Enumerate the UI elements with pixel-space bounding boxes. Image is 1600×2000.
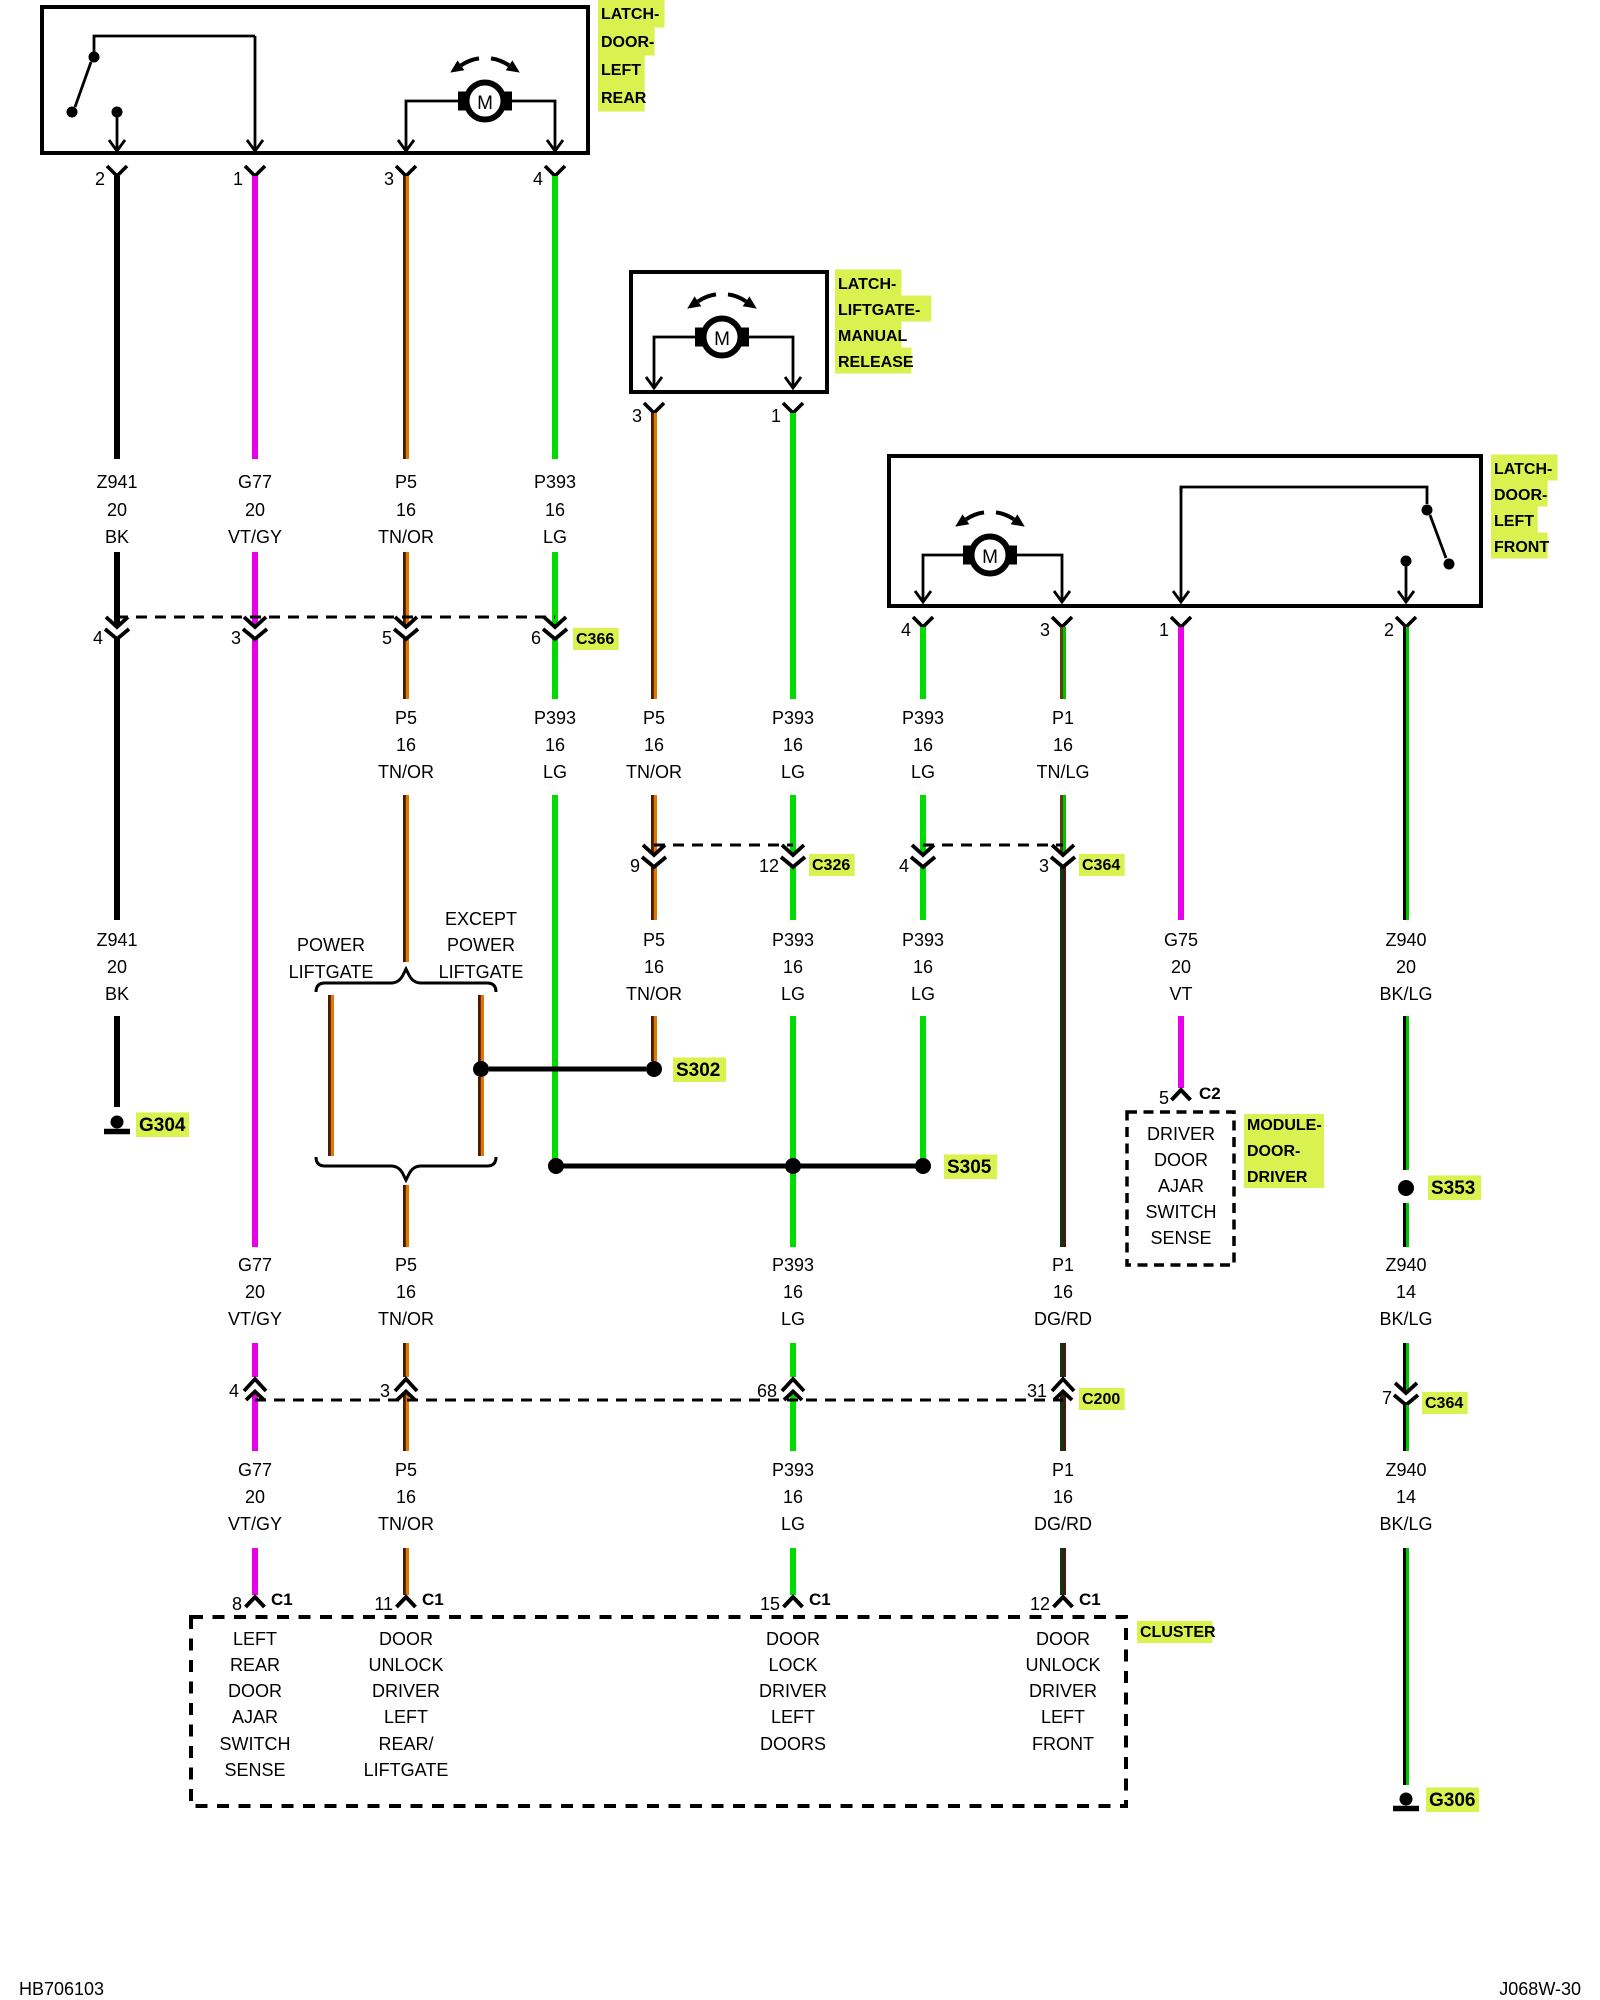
svg-text:LG: LG [543,762,567,782]
switch SW1 (door ajar, left rear) [94,36,255,52]
motor M, left rear door latch [461,58,479,65]
svg-text:VT/GY: VT/GY [228,527,282,547]
svg-text:DOOR: DOOR [766,1629,820,1649]
svg-text:LIFTGATE: LIFTGATE [439,962,524,982]
svg-text:VT/GY: VT/GY [228,1309,282,1329]
svg-text:VT/GY: VT/GY [228,1514,282,1534]
svg-text:LG: LG [911,762,935,782]
wire P1 TN/LG segment from latch front pin 3 [1061,627,1066,699]
svg-text:SWITCH: SWITCH [220,1734,291,1754]
svg-text:3: 3 [231,628,241,648]
wire Z940 segment to C364 pin 7 [1404,1343,1409,1393]
svg-text:16: 16 [1053,735,1073,755]
svg-text:DOOR-: DOOR- [601,34,654,51]
svg-text:DOOR: DOOR [1154,1150,1208,1170]
wire P5 segment to splice S302 [652,1016,657,1061]
svg-text:2: 2 [1384,620,1394,640]
svg-text:P393: P393 [534,708,576,728]
connector C200 dashed line [255,1399,1063,1402]
connector C366 pin 3 [244,617,266,627]
svg-text:LG: LG [781,762,805,782]
label: LATCH-DOOR-LEFT REAR [598,0,665,28]
svg-text:20: 20 [245,1282,265,1302]
svg-text:C1: C1 [271,1590,293,1609]
svg-text:LG: LG [781,1514,805,1534]
svg-text:LEFT: LEFT [601,62,641,79]
connector C200 pin 3 [395,1379,417,1391]
svg-text:20: 20 [1171,957,1191,977]
svg-text:1: 1 [233,169,243,189]
wire P393 long segment to splice S305 [552,795,558,1159]
svg-text:4: 4 [901,620,911,640]
brace bottom (wiring option merge) [316,1157,496,1180]
svg-text:Z940: Z940 [1385,1460,1426,1480]
svg-text:16: 16 [644,957,664,977]
svg-text:2: 2 [95,169,105,189]
svg-text:P1: P1 [1052,1255,1074,1275]
wire P393 segment below C200 [790,1392,796,1451]
svg-text:BK/LG: BK/LG [1379,984,1432,1004]
svg-text:12: 12 [1030,1594,1050,1614]
wire P393 segment to C366 [552,552,558,627]
wire G77 segment to C200 [252,1343,258,1377]
svg-text:C1: C1 [809,1590,831,1609]
motor wiring to pins 4 and 3 [923,555,964,591]
svg-text:6: 6 [531,628,541,648]
svg-text:9: 9 [630,856,640,876]
wire G77 segment below C200 [252,1392,258,1451]
splice S302 dot on branch [473,1061,489,1077]
splice S305 tie line and dots [556,1164,923,1169]
svg-text:DRIVER: DRIVER [1147,1124,1215,1144]
svg-text:DOOR: DOOR [1036,1629,1090,1649]
label C364 [1079,854,1125,876]
wire P393 LG segment from latch front pin 4 [920,627,926,699]
connector C1 pin 12 [1054,1597,1073,1607]
svg-text:3: 3 [1040,620,1050,640]
svg-text:20: 20 [107,500,127,520]
wire P393 segment to C326 [790,795,796,855]
wire Z940 BK/LG segment from latch front pin 2 [1404,627,1409,920]
connector C200 pin 68 [782,1379,804,1391]
pin arrow, pin 2 internal [116,117,119,149]
svg-text:FRONT: FRONT [1032,1734,1094,1754]
svg-text:TN/OR: TN/OR [378,1309,434,1329]
svg-text:31: 31 [1027,1381,1047,1401]
svg-text:SWITCH: SWITCH [1146,1202,1217,1222]
wire G75 VT segment from latch front pin 1 [1178,627,1184,920]
wire P1 DG/RD long segment below C364 [1060,867,1065,1247]
svg-text:G306: G306 [1429,1790,1475,1811]
svg-text:M: M [477,93,493,114]
connector C326 pin 9 [643,845,665,855]
svg-text:4: 4 [93,628,103,648]
motor wiring to pins 3 and 1 [654,337,696,377]
svg-text:16: 16 [396,1282,416,1302]
svg-text:BK: BK [105,984,129,1004]
svg-text:14: 14 [1396,1282,1416,1302]
connector C200 pin 31 [1052,1379,1074,1391]
wire G77 segment to cluster C1 [252,1548,258,1595]
wire Z940 segment to splice S353 [1404,1016,1409,1170]
wire P5 segment to C326 [652,795,657,855]
svg-text:DOOR-: DOOR- [1494,487,1547,504]
wire P393 segment through splice S305 [790,1016,796,1159]
svg-text:LEFT: LEFT [1041,1707,1085,1727]
connector C366 pin 5 [395,617,417,627]
wire Z941 BK segment below C366 [114,639,120,920]
svg-text:CLUSTER: CLUSTER [1140,1624,1216,1641]
svg-text:P393: P393 [772,1255,814,1275]
connector C366 pin 4 [106,617,128,627]
wire P5 branch power liftgate [329,995,334,1156]
svg-text:DOOR: DOOR [228,1681,282,1701]
pin arrow, pin 1 internal [254,36,257,149]
svg-text:TN/OR: TN/OR [626,984,682,1004]
svg-text:3: 3 [380,1381,390,1401]
svg-text:LEFT: LEFT [384,1707,428,1727]
svg-text:EXCEPT: EXCEPT [445,909,517,929]
svg-text:16: 16 [783,1282,803,1302]
connector pin 1 of liftgate latch [783,403,803,413]
svg-text:20: 20 [245,1487,265,1507]
connector pin 1 of latch front [1171,617,1191,627]
svg-text:12: 12 [759,856,779,876]
svg-text:15: 15 [760,1594,780,1614]
svg-text:1: 1 [771,406,781,426]
svg-text:P5: P5 [395,1255,417,1275]
splice S353 [1398,1180,1414,1196]
svg-text:G77: G77 [238,472,272,492]
connector pin 4 of latch rear [545,166,565,176]
wire P393 segment below C366 [552,639,558,699]
svg-text:P393: P393 [772,930,814,950]
wire P5 segment below brace [404,1185,409,1247]
component box: latch door left front [889,456,1481,606]
svg-text:C1: C1 [422,1590,444,1609]
motor M, left front door latch [966,512,984,519]
svg-text:DOORS: DOORS [760,1734,826,1754]
label: LATCH-DOOR-LEFT FRONT [1491,455,1558,481]
svg-text:C364: C364 [1425,1395,1463,1412]
wire P5 segment below C366 [404,639,409,699]
connector C326 pin 12 [782,845,804,855]
svg-text:P5: P5 [395,708,417,728]
svg-text:16: 16 [396,735,416,755]
wire P5 branch except power liftgate upper [479,995,484,1062]
label G304 [136,1112,189,1137]
svg-text:LATCH-: LATCH- [1494,461,1552,478]
svg-text:TN/LG: TN/LG [1036,762,1089,782]
connector pin 1 of latch rear [245,166,265,176]
wire G77 VT/GY segment from latch rear pin 1 [252,176,258,459]
svg-text:M: M [714,329,730,350]
wire P393 segment below C326 [790,867,796,920]
label C200 [1079,1388,1125,1410]
svg-text:LIFTGATE: LIFTGATE [289,962,374,982]
wire Z941 BK segment from latch rear pin 2 [114,176,120,459]
wire P5 branch except power liftgate lower [479,1077,484,1156]
svg-text:LG: LG [781,1309,805,1329]
connector pin 3 of latch front [1052,617,1072,627]
svg-text:LG: LG [781,984,805,1004]
svg-text:TN/OR: TN/OR [626,762,682,782]
svg-text:LG: LG [543,527,567,547]
svg-text:16: 16 [783,735,803,755]
svg-text:3: 3 [1039,856,1049,876]
svg-text:S302: S302 [676,1060,720,1081]
module box: module door driver (dashed) [1127,1112,1234,1265]
wire P5 TN/OR segment from liftgate pin 3 [652,413,657,699]
wire P1 segment to cluster C1 [1060,1548,1065,1595]
wire P393 segment to cluster C1 [790,1548,796,1595]
svg-text:16: 16 [783,1487,803,1507]
svg-text:C1: C1 [1079,1590,1101,1609]
svg-text:BK/LG: BK/LG [1379,1514,1432,1534]
svg-text:SENSE: SENSE [224,1760,285,1780]
label C366 [573,628,619,650]
svg-text:7: 7 [1382,1388,1392,1408]
svg-text:MODULE-: MODULE- [1247,1117,1322,1134]
svg-text:16: 16 [396,500,416,520]
ground G304 [111,1116,124,1129]
svg-text:5: 5 [382,628,392,648]
wire P393 LG segment from liftgate pin 1 [790,413,796,699]
svg-text:LEFT: LEFT [233,1629,277,1649]
svg-text:LEFT: LEFT [771,1707,815,1727]
label: LATCH-LIFTGATE-MANUAL RELEASE [835,270,902,296]
svg-text:DOOR-: DOOR- [1247,1143,1300,1160]
wire G77 segment to C366 [252,552,258,627]
connector C326 dashed line [654,844,793,847]
splice S302 dot end [646,1061,662,1077]
svg-text:3: 3 [632,406,642,426]
svg-text:3: 3 [384,169,394,189]
splice S302 tie line [489,1067,646,1072]
svg-text:AJAR: AJAR [1158,1176,1204,1196]
svg-text:DOOR: DOOR [379,1629,433,1649]
svg-text:S305: S305 [947,1157,992,1178]
svg-text:VT: VT [1169,984,1192,1004]
wire P393 LG segment from latch rear pin 4 [552,176,558,459]
label S302 [673,1057,726,1082]
wire P5 segment to C200 [404,1343,409,1377]
connector pin 2 of latch rear [107,166,127,176]
svg-text:P393: P393 [772,1460,814,1480]
svg-text:4: 4 [229,1381,239,1401]
svg-text:G304: G304 [139,1115,186,1136]
wire P393 segment below C364 [920,867,926,920]
svg-text:Z940: Z940 [1385,1255,1426,1275]
svg-text:POWER: POWER [297,935,365,955]
wire Z941 BK segment to ground [114,1016,120,1107]
component box: latch door left rear [42,7,588,153]
ground G306 [1400,1793,1413,1806]
svg-text:DRIVER: DRIVER [1247,1169,1308,1186]
svg-text:P5: P5 [395,472,417,492]
svg-text:LIFTGATE: LIFTGATE [364,1760,449,1780]
svg-text:20: 20 [245,500,265,520]
svg-text:68: 68 [757,1381,777,1401]
svg-text:P1: P1 [1052,1460,1074,1480]
svg-text:LOCK: LOCK [768,1655,817,1675]
label S305 [944,1154,997,1179]
svg-text:REAR/: REAR/ [378,1734,433,1754]
svg-text:POWER: POWER [447,935,515,955]
svg-text:Z941: Z941 [96,472,137,492]
connector C364 pin 7 [1395,1383,1417,1393]
connector C364 pin 4 [912,845,934,855]
svg-text:16: 16 [1053,1487,1073,1507]
svg-text:8: 8 [232,1594,242,1614]
svg-text:C326: C326 [812,857,850,874]
connector C366 dashed line [117,616,555,619]
svg-text:16: 16 [1053,1282,1073,1302]
svg-text:1: 1 [1159,620,1169,640]
svg-text:11: 11 [374,1594,393,1614]
svg-text:4: 4 [533,169,543,189]
svg-text:DG/RD: DG/RD [1034,1514,1092,1534]
svg-text:C2: C2 [1199,1084,1221,1103]
svg-text:FRONT: FRONT [1494,539,1549,556]
wire P393 segment below S305 [790,1173,796,1247]
brace top (wiring option split) [316,969,496,992]
wire P5 segment below C326 [652,867,657,920]
svg-text:Z941: Z941 [96,930,137,950]
svg-text:16: 16 [644,735,664,755]
svg-text:P5: P5 [643,930,665,950]
svg-text:SENSE: SENSE [1150,1228,1211,1248]
label C326 [809,854,855,876]
svg-text:HB706103: HB706103 [19,1979,104,1999]
wire Z940 14 segment below S353 [1404,1203,1409,1247]
label S353 [1428,1175,1481,1200]
svg-text:G75: G75 [1164,930,1198,950]
svg-text:BK/LG: BK/LG [1379,1309,1432,1329]
component box: latch liftgate manual release [631,272,827,392]
svg-text:DRIVER: DRIVER [372,1681,440,1701]
wire P393 segment to C364 [920,795,926,855]
connector C1 pin 11 [397,1597,416,1607]
wire Z940 segment below C364 [1404,1405,1409,1451]
connector pin 3 of liftgate latch [644,403,664,413]
wire P393 segment to splice S305 [920,1016,926,1159]
pin arrow, pin 1 internal [1180,487,1183,600]
svg-text:C200: C200 [1082,1391,1120,1408]
svg-text:RELEASE: RELEASE [838,354,914,371]
svg-text:P5: P5 [395,1460,417,1480]
svg-text:S353: S353 [1431,1178,1475,1199]
svg-text:LEFT: LEFT [1494,513,1534,530]
label G306 [1426,1787,1479,1812]
svg-text:AJAR: AJAR [232,1707,278,1727]
svg-text:C364: C364 [1082,857,1120,874]
label C364 (right) [1422,1392,1468,1414]
connector C200 pin 4 [244,1379,266,1391]
pin arrow, pin 2 internal [1405,566,1408,600]
wire Z940 long segment to ground [1404,1548,1409,1785]
connector C364 pin 3 [1052,845,1074,855]
wire Z941 BK segment to C366 [114,552,120,627]
motor M, liftgate manual release [698,294,716,301]
svg-text:LIFTGATE-: LIFTGATE- [838,302,920,319]
svg-text:UNLOCK: UNLOCK [368,1655,443,1675]
connector C1 pin 8 [246,1597,265,1607]
label CLUSTER [1137,1621,1212,1643]
svg-text:REAR: REAR [230,1655,280,1675]
svg-text:C366: C366 [576,631,614,648]
svg-text:16: 16 [545,500,565,520]
svg-text:20: 20 [1396,957,1416,977]
svg-text:DRIVER: DRIVER [759,1681,827,1701]
svg-text:20: 20 [107,957,127,977]
motor wiring to pins 3 and 4 [406,101,459,140]
svg-text:TN/OR: TN/OR [378,762,434,782]
svg-text:LATCH-: LATCH- [838,276,896,293]
svg-text:J068W-30: J068W-30 [1499,1979,1581,1999]
svg-text:P5: P5 [643,708,665,728]
svg-text:REAR: REAR [601,90,647,107]
svg-text:P393: P393 [902,930,944,950]
svg-text:P1: P1 [1052,708,1074,728]
connector C366 pin 6 [544,617,566,627]
wire P1 segment below C200 [1060,1392,1065,1451]
svg-text:DG/RD: DG/RD [1034,1309,1092,1329]
cluster box (dashed) [191,1617,1126,1806]
wire P5 segment to power liftgate brace [404,795,409,962]
svg-text:16: 16 [545,735,565,755]
wire P5 segment to cluster C1 [404,1548,409,1595]
label: MODULE-DOOR-DRIVER [1244,1114,1324,1188]
svg-text:LATCH-: LATCH- [601,6,659,23]
svg-text:16: 16 [913,957,933,977]
svg-text:MANUAL: MANUAL [838,328,908,345]
wire P5 segment to C366 [404,552,409,627]
svg-text:DRIVER: DRIVER [1029,1681,1097,1701]
svg-text:5: 5 [1159,1088,1169,1108]
svg-text:P393: P393 [534,472,576,492]
wire G75 segment to module C2 [1178,1016,1184,1088]
wire P5 TN/OR segment from latch rear pin 3 [404,176,409,459]
svg-text:16: 16 [396,1487,416,1507]
svg-text:TN/OR: TN/OR [378,1514,434,1534]
connector pin 2 of latch front [1396,617,1416,627]
connector C364 dashed line [923,844,1063,847]
wire P1 segment to C200 [1060,1343,1065,1377]
connector pin 4 of latch front [913,617,933,627]
svg-text:M: M [982,547,998,568]
svg-text:TN/OR: TN/OR [378,527,434,547]
wire P1 segment to C364 [1061,795,1066,855]
switch SW2 (door ajar, left front) [1181,487,1427,504]
wire G77 long segment below C366 [252,639,258,1247]
svg-text:BK: BK [105,527,129,547]
svg-text:16: 16 [913,735,933,755]
svg-text:UNLOCK: UNLOCK [1025,1655,1100,1675]
svg-text:14: 14 [1396,1487,1416,1507]
svg-text:P393: P393 [902,708,944,728]
wire P5 segment below C200 [404,1392,409,1451]
wire P393 segment to C200 [790,1343,796,1377]
connector C1 pin 15 [784,1597,803,1607]
svg-text:G77: G77 [238,1255,272,1275]
svg-text:LG: LG [911,984,935,1004]
connector C2 pin 5 of driver door module [1172,1090,1191,1100]
svg-text:Z940: Z940 [1385,930,1426,950]
connector pin 3 of latch rear [396,166,416,176]
svg-text:16: 16 [783,957,803,977]
svg-text:G77: G77 [238,1460,272,1480]
